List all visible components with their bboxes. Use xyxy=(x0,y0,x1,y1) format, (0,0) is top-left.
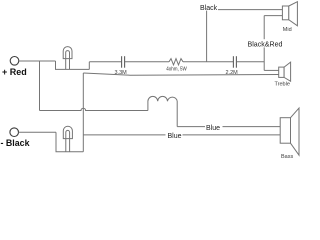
svg-text:4ohm, 5W: 4ohm, 5W xyxy=(166,67,187,73)
label Blue (lower) xyxy=(166,132,183,141)
wire from -Black terminal xyxy=(19,131,57,133)
inductor L (coil) xyxy=(148,96,177,126)
return vertical wire up to treble rail xyxy=(82,73,84,152)
speaker Mid xyxy=(282,2,297,26)
capacitor C1 3.3M plates xyxy=(122,56,125,67)
wire step up to main rail xyxy=(88,62,90,70)
main rail segment resistor to capacitor C2 xyxy=(183,61,233,63)
junction up to Black wire xyxy=(206,10,208,62)
svg-text:Bass: Bass xyxy=(281,154,293,158)
resistor R1 4ohm 5W zigzag xyxy=(169,59,183,65)
svg-text:Blue: Blue xyxy=(168,133,182,140)
lamp L1 (protection bulb, top) xyxy=(63,47,72,70)
Blue wire (bass -) to Bass speaker xyxy=(83,134,280,136)
wire to Treble top terminal xyxy=(264,69,279,71)
terminal + Red xyxy=(10,57,19,66)
label Blue (upper) xyxy=(205,123,223,132)
Blue wire (bass +) to Bass speaker xyxy=(177,126,280,128)
Black wire to Mid speaker xyxy=(207,9,283,11)
svg-text:- Black: - Black xyxy=(1,138,31,148)
treble bottom rail from return node xyxy=(83,73,278,75)
lamp L2 (protection bulb, bottom) xyxy=(63,126,72,152)
coil feed wire with hop over return vertical xyxy=(40,108,148,110)
speaker Bass xyxy=(280,108,299,155)
speaker Treble xyxy=(279,62,291,81)
main rail segment to capacitor C1 xyxy=(89,61,121,63)
terminal - Black xyxy=(10,128,19,137)
Mid speaker lower wire xyxy=(264,15,282,17)
main rail segment C2 to Black&Red node xyxy=(237,61,265,63)
wire from +Red terminal to step xyxy=(19,60,56,62)
svg-text:Mid: Mid xyxy=(283,27,292,33)
capacitor C2 2.2M plates xyxy=(233,56,236,67)
svg-text:Black: Black xyxy=(200,5,218,12)
svg-text:+ Red: + Red xyxy=(2,67,27,77)
wire step down to bottom rail xyxy=(56,132,83,152)
junction down from +Red wire xyxy=(39,61,41,111)
main rail segment C1 to resistor xyxy=(125,61,169,63)
Black&Red vertical wire xyxy=(263,16,265,71)
svg-text:Black&Red: Black&Red xyxy=(248,39,283,48)
label Black xyxy=(200,3,219,12)
svg-text:Blue: Blue xyxy=(206,125,220,132)
svg-text:Treble: Treble xyxy=(275,82,290,88)
label Black&Red xyxy=(247,39,284,48)
wire step down to lamp rail xyxy=(56,61,90,69)
